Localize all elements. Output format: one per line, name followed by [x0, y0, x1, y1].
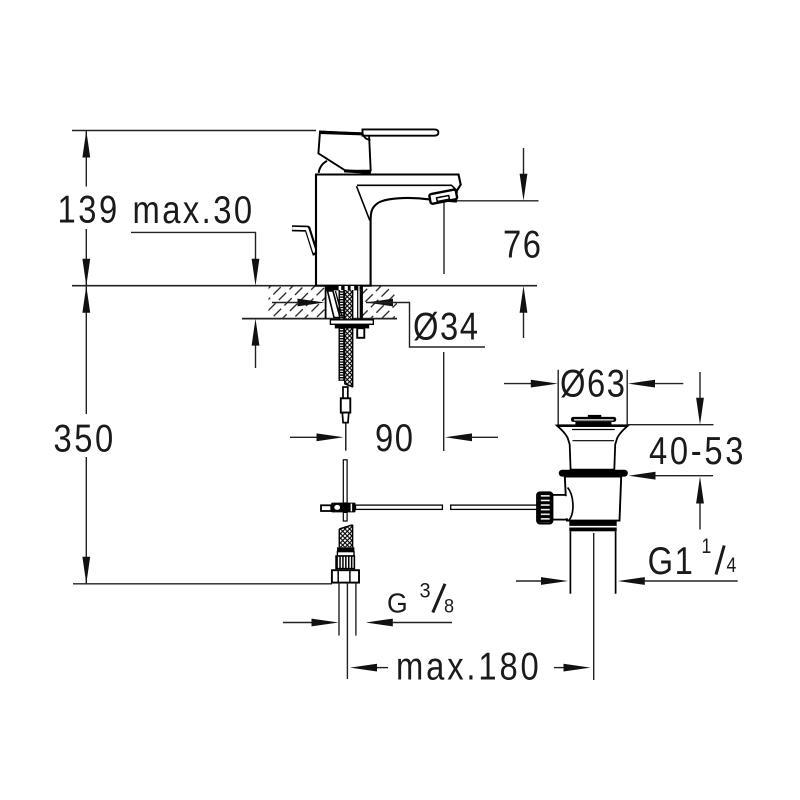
left dimension line 139/350 — [85, 131, 87, 187]
svg-text:3: 3 — [420, 579, 432, 603]
max.180 dim left arrow — [350, 664, 377, 672]
shank base band at counter — [326, 286, 362, 290]
handle bar joint notch — [363, 134, 371, 140]
G3/8 dim left arrow — [283, 622, 312, 624]
76 dim upper arrow — [523, 148, 525, 177]
G1 1/4 dim right arrow — [618, 577, 645, 585]
countertop hatch left of hole — [269, 287, 326, 318]
40-53 lower vertical arrow — [699, 503, 701, 530]
counter hole left wall — [325, 286, 327, 319]
nut side tab — [357, 328, 364, 338]
40-53 upper arrow — [699, 372, 701, 398]
pull rod in hole — [357, 286, 359, 319]
pop-up rod lever behind body — [292, 228, 316, 255]
drain rubber seal — [559, 470, 628, 477]
max.30 lower arrow (counter thickness) — [255, 341, 257, 368]
plastic wedge in hole — [328, 291, 341, 318]
faucet centerline — [346, 583, 348, 679]
svg-text:8: 8 — [444, 595, 455, 617]
braided hose lower — [339, 525, 352, 548]
Ø63 dim right arrow — [628, 380, 655, 388]
drain coupling rings — [569, 521, 616, 531]
supply pipe lines below nut — [338, 583, 340, 636]
Ø63 dim extension lines — [557, 370, 559, 425]
svg-text:Ø63: Ø63 — [560, 361, 626, 405]
76 dim lower arrow — [523, 309, 525, 338]
hose end taper — [342, 413, 349, 423]
handle cap top thick edge — [320, 132, 362, 133]
spout height reference line — [452, 200, 539, 202]
handle base dark band — [344, 169, 371, 174]
max.180 dim right arrow — [554, 667, 564, 669]
drain centerline — [593, 533, 595, 680]
stem-body intersection arc — [568, 488, 573, 521]
40-53 lower reference line with left arrow — [655, 475, 713, 477]
horizontal linkage rod segment 1 — [356, 505, 443, 509]
svg-text:90: 90 — [375, 415, 414, 459]
svg-text:4: 4 — [727, 554, 738, 578]
svg-text:40-53: 40-53 — [649, 428, 746, 472]
90 dim right arrow — [445, 433, 472, 441]
rod stub below linkage — [343, 512, 347, 521]
linkage block — [331, 503, 355, 513]
body inner top line — [357, 185, 457, 190]
handle cap — [318, 132, 370, 171]
hose end cylinder — [341, 398, 351, 412]
body V diagonal — [357, 186, 370, 220]
drain valve knurled knob — [537, 492, 553, 523]
spout axis extension line below counter — [443, 352, 445, 451]
braided supply hose upper — [344, 290, 353, 387]
svg-text:G1: G1 — [648, 538, 695, 582]
knob stem — [553, 495, 569, 520]
counter hole right wall — [361, 286, 363, 319]
drain plug cap top tab — [588, 415, 602, 418]
top reference line (handle top level) — [72, 130, 316, 132]
drain tailpipe — [569, 531, 571, 593]
spout axis extension line above counter — [443, 203, 445, 274]
countertop top surface line — [72, 285, 537, 287]
350 bottom reference line — [73, 583, 332, 585]
pop-up pull rod vertical — [343, 460, 347, 503]
mounting nut — [335, 324, 369, 328]
G3/8 connection nut — [332, 570, 359, 582]
max.30 leader line — [131, 232, 256, 262]
drain plug cap lower band — [575, 422, 611, 425]
threaded mounting stud — [339, 290, 345, 381]
countertop bottom surface line — [242, 318, 397, 320]
countertop hatch right of hole — [362, 287, 397, 318]
handle cap lower-left arc — [319, 161, 327, 173]
hose end neck — [343, 387, 348, 398]
svg-text:max.30: max.30 — [133, 187, 255, 231]
hose collar white band — [337, 552, 354, 556]
svg-text:1: 1 — [702, 535, 713, 559]
knurled section — [336, 556, 354, 569]
90 dim left arrow — [290, 436, 317, 438]
Ø63 dim left arrow — [504, 383, 531, 385]
G1 1/4 dim left arrow — [516, 580, 542, 582]
horizontal linkage rod segment 2 — [451, 505, 538, 509]
drain valve body — [565, 477, 621, 521]
stem port opening — [561, 496, 569, 518]
handle lever bar — [363, 129, 439, 135]
drain plug cap bar — [571, 417, 616, 422]
G3/8 dim right arrow — [366, 619, 393, 627]
Ø34 right arrow and bracket — [366, 299, 393, 307]
mounting washer below counter — [330, 320, 373, 325]
aerator outlet — [429, 189, 457, 204]
svg-text:139: 139 — [58, 187, 120, 231]
linkage left stub — [321, 505, 331, 511]
svg-text:76: 76 — [503, 222, 542, 266]
svg-text:350: 350 — [54, 416, 116, 460]
hose collar dark band — [337, 547, 354, 551]
faucet body outline — [316, 175, 461, 286]
svg-text:max.180: max.180 — [396, 644, 542, 688]
40-53 upper reference line — [627, 424, 714, 426]
pull wire — [345, 423, 347, 451]
svg-text:G: G — [387, 587, 409, 619]
svg-text:Ø34: Ø34 — [413, 304, 479, 348]
drain flange cone — [557, 426, 628, 470]
Ø34 left arrow — [272, 302, 299, 304]
